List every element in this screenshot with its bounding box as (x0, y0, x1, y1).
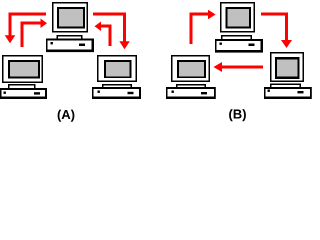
computer PC5: system case (166, 87, 216, 99)
computer PC6: screen (275, 57, 300, 79)
computer PC2: system case (0, 88, 47, 99)
computer PC6: drive slot (298, 91, 304, 93)
wire arrow B2: PC4 to PC6 (elbow right then down) (261, 14, 292, 48)
computer PC5: power dot (172, 91, 174, 93)
computer PC3: power dot (98, 91, 100, 93)
wire arrow A3: hub PC1 to PC3 (elbow right then down) (93, 14, 130, 49)
wire arrow A4: PC3 up to hub PC1 (elbow up then left) (95, 22, 111, 47)
computer PC3: screen (104, 60, 132, 78)
computer PC5 (bottom-left of diagram B): monitor (171, 55, 210, 82)
computer PC1 (top hub of diagram A): monitor (52, 2, 88, 33)
computer PC1: screen (57, 7, 85, 29)
computer PC4 (top of diagram B): monitor (220, 2, 255, 33)
computer PC2: stand (8, 84, 36, 89)
computer PC4: stand (221, 35, 252, 39)
computer PC6 (bottom-right of diagram B): monitor (270, 52, 304, 82)
label (B) (229, 109, 246, 121)
computer PC4: system case (215, 39, 263, 53)
computer PC1: drive slot (79, 44, 85, 47)
computer PC5: stand (176, 84, 206, 88)
computer PC2 (bottom-left of diagram A): monitor (2, 55, 43, 83)
computer PC2: power dot (4, 92, 6, 94)
computer PC2: drive slot (34, 92, 40, 94)
computer PC6: stand (270, 84, 301, 88)
computer PC6: system case (264, 87, 312, 99)
computer PC3 (bottom-right of diagram A): monitor (97, 55, 137, 82)
computer PC5: drive slot (201, 92, 207, 94)
computer PC1: system case (46, 39, 94, 53)
computer PC6: power dot (268, 90, 270, 92)
computer PC4: power dot (220, 43, 222, 45)
computer PC3: drive slot (128, 92, 134, 94)
computer PC4: screen (226, 7, 252, 29)
label (A) (58, 110, 75, 122)
computer PC3: system case (92, 87, 141, 99)
computer PC1: stand (57, 35, 83, 39)
computer PC3: stand (102, 84, 132, 88)
wire arrow B1: PC5 up to PC4 (elbow up then right) (191, 10, 216, 44)
computer PC2: screen (8, 60, 40, 79)
computer PC5: screen (177, 60, 206, 78)
computer PC1: power dot (51, 42, 53, 44)
wire arrow A2: PC2 up to hub PC1 (elbow up then right) (22, 19, 47, 48)
wire arrow B3: PC6 left to PC5 (straight) (214, 62, 264, 72)
computer PC4: drive slot (249, 44, 255, 47)
wire arrow A1: hub PC1 to PC2 (elbow left then down) (5, 14, 46, 43)
